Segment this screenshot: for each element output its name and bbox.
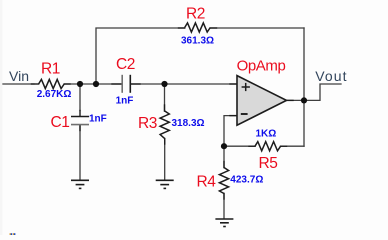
svg-text:R1: R1 [41, 61, 60, 78]
svg-text:423.7Ω: 423.7Ω [230, 174, 263, 185]
svg-text:1nF: 1nF [89, 114, 107, 125]
svg-text:Vout: Vout [315, 68, 347, 84]
svg-text:318.3Ω: 318.3Ω [172, 118, 205, 129]
svg-text:361.3Ω: 361.3Ω [181, 35, 214, 46]
svg-text:R5: R5 [258, 155, 277, 172]
svg-text:2.67KΩ: 2.67KΩ [37, 89, 72, 100]
svg-text:1KΩ: 1KΩ [256, 128, 277, 139]
svg-text:R3: R3 [138, 115, 157, 132]
svg-text:C2: C2 [116, 56, 135, 73]
svg-text:1nF: 1nF [116, 96, 134, 107]
svg-text:R2: R2 [186, 6, 205, 23]
svg-text:R4: R4 [196, 173, 216, 190]
svg-text:C1: C1 [50, 114, 69, 131]
svg-text:Vin: Vin [9, 68, 29, 84]
svg-text:OpAmp: OpAmp [237, 57, 286, 74]
